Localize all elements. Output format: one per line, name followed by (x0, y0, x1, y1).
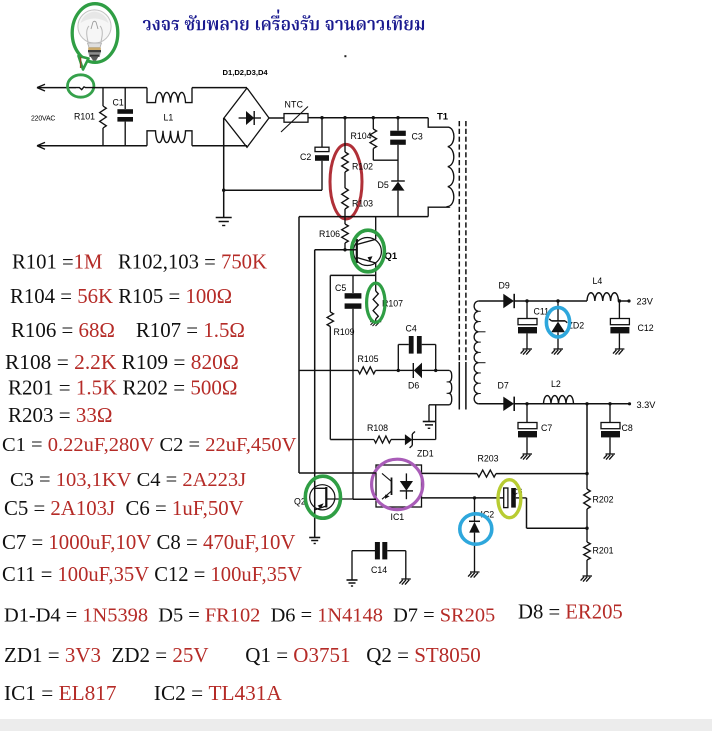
svg-text:R101: R101 (74, 112, 95, 122)
3.3V rectifier line (478, 403, 503, 405)
purple highlight circle around IC1 (372, 459, 423, 509)
base drive line (315, 249, 357, 251)
svg-text:C14: C14 (371, 565, 387, 575)
transistor Q2 (310, 485, 335, 510)
svg-text:C12: C12 (638, 323, 654, 333)
green highlight ellipse around Q2 (305, 476, 340, 518)
R201 ground symbol (583, 575, 593, 577)
3.3V rail wire (514, 403, 630, 405)
capacitor C4 (397, 345, 399, 371)
capacitor C7 electrolytic (526, 404, 528, 423)
junction dot base chain (343, 248, 346, 251)
svg-text:NTC: NTC (285, 100, 304, 110)
diode D7 (503, 397, 514, 411)
resistor R201 (584, 542, 591, 560)
sense line from 3.3V rail (586, 404, 588, 474)
svg-text:IC1 = EL817 IC2 = TL431A: IC1 = EL817 IC2 = TL431A (4, 681, 282, 705)
transformer T1 primary winding (428, 118, 454, 217)
junction dot D6-aux (434, 369, 437, 372)
red highlight ellipse around R102 R103 (330, 144, 362, 219)
C14 right ground symbol (401, 578, 411, 580)
C7 ground symbol (523, 453, 533, 455)
capacitor C12 electrolytic (618, 301, 620, 319)
svg-text:R201: R201 (593, 546, 614, 556)
aux winding of T1 (436, 369, 450, 371)
C8 ground symbol (606, 453, 616, 455)
svg-text:C2: C2 (300, 152, 311, 162)
optocoupler IC1 box (376, 465, 422, 507)
svg-text:L4: L4 (593, 276, 603, 286)
svg-text:R201 = 1.5K R202 = 500Ω: R201 = 1.5K R202 = 500Ω (8, 376, 238, 400)
AC input terminal arrows and 220VAC label (37, 84, 45, 87)
resistor R101 across AC line (102, 88, 104, 106)
capacitor C6 (504, 488, 508, 508)
common-mode choke L1 bottom winding (147, 131, 192, 146)
IC1 internal LED (405, 473, 407, 481)
wire L4 to 23V terminal (619, 300, 630, 302)
svg-text:L1: L1 (164, 113, 174, 123)
svg-text:220VAC: 220VAC (31, 116, 55, 123)
junction dot C7 (525, 402, 528, 405)
capacitor C5 (352, 275, 354, 293)
junction dot C11 (525, 299, 528, 302)
svg-text:C1 = 0.22uF,280V C2 = 22uF,450: C1 = 0.22uF,280V C2 = 22uF,450V (2, 434, 297, 456)
IC2 ground symbol (470, 571, 480, 573)
shunt regulator IC2 TL431 (473, 496, 476, 499)
wire NTC to rail junction (308, 117, 322, 119)
svg-text:D7: D7 (498, 381, 509, 391)
junction dot DC- rail (222, 189, 225, 192)
DC- rail wire (224, 189, 322, 191)
23V rectifier line (478, 300, 503, 302)
wire bridge left corner down to DC- rail (223, 118, 225, 190)
light bulb clipart in green speech bubble (72, 4, 118, 63)
svg-text:C7: C7 (541, 423, 552, 433)
R109-R108 link (330, 439, 353, 441)
resistor R104 (372, 118, 374, 129)
IC1 bottom-left pin wire (353, 498, 376, 500)
junction dot R203-R202 (585, 472, 588, 475)
left rail to IC1 (298, 217, 300, 473)
wire top AC from input to fuse (37, 87, 76, 89)
diode D5 (391, 180, 405, 182)
svg-text:ZD1: ZD1 (417, 449, 434, 459)
svg-text:R101 =1M R102,103 = 750K: R101 =1M R102,103 = 750K (12, 252, 267, 274)
stray ink dot (344, 55, 346, 57)
svg-text:R108 = 2.2K R109 = 820Ω: R108 = 2.2K R109 = 820Ω (5, 350, 239, 374)
wire R106 to base node (344, 243, 346, 250)
svg-text:R106 = 68Ω R107 = 1.5Ω: R106 = 68Ω R107 = 1.5Ω (11, 318, 245, 342)
svg-text:D5: D5 (378, 180, 389, 190)
svg-text:D6: D6 (408, 381, 419, 391)
svg-text:R104: R104 (351, 131, 372, 141)
C6 to divider wire (526, 498, 528, 528)
svg-text:C3: C3 (412, 132, 423, 142)
inductor L4 (587, 293, 619, 301)
NTC thermistor (284, 114, 308, 123)
svg-text:D1-D4 = 1N5398 D5 = FR102 D6: D1-D4 = 1N5398 D5 = FR102 D6 = 1N4148 D7… (4, 605, 495, 627)
wire R102 to R103 (344, 172, 346, 188)
svg-text:R103: R103 (352, 199, 373, 209)
IC1 top-right pin wire to R203 line (422, 472, 478, 474)
junction dot R105-C4 (397, 369, 400, 372)
inductor L2 (544, 396, 574, 404)
svg-text:R108: R108 (367, 423, 388, 433)
C11 ground symbol (523, 348, 533, 350)
svg-text:C5: C5 (335, 283, 346, 293)
fuse F1 on top AC wire (76, 87, 92, 90)
wire bottom AC from input to L1 (37, 145, 147, 147)
Q1 emitter line (330, 274, 375, 276)
IC1 internal phototransistor (391, 478, 393, 496)
resistor R202 (586, 474, 588, 489)
junction dot R102 chain (343, 116, 346, 119)
svg-text:C11 = 100uF,35V C12 = 100uF,35: C11 = 100uF,35V C12 = 100uF,35V (2, 564, 302, 586)
svg-text:D1,D2,D3,D4: D1,D2,D3,D4 (223, 68, 269, 77)
resistor R203 (477, 470, 496, 477)
svg-text:T1: T1 (437, 112, 449, 123)
bridge rectifier D1,D2,D3,D4 diamond (224, 88, 269, 147)
capacitor C14 (352, 550, 375, 552)
ZD2 ground symbol (554, 348, 564, 350)
svg-text:C5 = 2A103J C6 = 1uF,50V: C5 = 2A103J C6 = 1uF,50V (4, 497, 244, 520)
wire top AC from fuse to L1 (92, 87, 147, 89)
svg-text:R203: R203 (478, 454, 499, 464)
wire bottom AC from L1 to bridge (192, 145, 247, 147)
green highlight circle around fuse (68, 75, 94, 97)
wire top AC from L1 to bridge (192, 87, 247, 89)
junction dot C8 (608, 402, 611, 405)
junction dot sense line (585, 402, 588, 405)
svg-text:23V: 23V (637, 297, 654, 307)
capacitor C3 (397, 118, 399, 131)
bottom gray strip (0, 719, 712, 731)
svg-text:R202: R202 (593, 495, 614, 505)
svg-text:R106: R106 (319, 229, 340, 239)
svg-text:D8 = ER205: D8 = ER205 (518, 602, 623, 624)
capacitor C1 across AC line (124, 88, 126, 109)
svg-text:ZD1 = 3V3 ZD2 = 25V Q1: ZD1 = 3V3 ZD2 = 25V Q1 = O3751 Q2 = ST80… (4, 643, 481, 667)
svg-text:Q1: Q1 (385, 251, 398, 262)
svg-text:R102: R102 (352, 162, 373, 172)
svg-text:C3 = 103,1KV C4 = 2A223J: C3 = 103,1KV C4 = 2A223J (10, 469, 246, 491)
svg-text:3.3V: 3.3V (637, 400, 657, 410)
blue highlight circle around IC2 (460, 514, 492, 544)
Q2 ground symbol (309, 537, 320, 539)
green highlight ellipse around R107 (367, 283, 385, 322)
svg-text:D9: D9 (499, 281, 510, 291)
Thai title text (143, 9, 424, 30)
svg-text:C8: C8 (622, 423, 633, 433)
DC+ rail wire (322, 117, 428, 119)
capacitor C8 electrolytic (609, 404, 611, 423)
resistor R102 (342, 152, 349, 172)
yellow-green highlight ellipse around C6 (498, 480, 521, 518)
primary ground symbol (223, 190, 225, 217)
zener diode ZD2 (557, 301, 559, 321)
23V rail wire (514, 300, 588, 302)
svg-text:R104 = 56K R105 = 100Ω: R104 = 56K R105 = 100Ω (10, 285, 232, 308)
blue highlight circle around ZD2 (546, 307, 569, 337)
junction dot C12 (618, 299, 621, 302)
resistor R108 (353, 439, 374, 441)
resistor R109 branch (329, 275, 331, 312)
svg-text:R105: R105 (358, 354, 379, 364)
transformer core dashed lines (458, 121, 460, 362)
startup chain wire rail to R102 (344, 118, 346, 152)
svg-text:C7 = 1000uF,10V C8 = 470uF,10V: C7 = 1000uF,10V C8 = 470uF,10V (2, 531, 295, 554)
junction dot C3 (396, 116, 399, 119)
R107 ground symbol (370, 321, 381, 323)
junction dot C2 (320, 116, 323, 119)
resistor R105 (299, 369, 358, 371)
svg-text:R203 = 33Ω: R203 = 33Ω (8, 403, 112, 427)
C14 left ground symbol (347, 579, 358, 581)
junction dot R104 (372, 116, 375, 119)
junction dot ZD2 (556, 299, 559, 302)
common-mode choke L1 top winding (147, 88, 192, 103)
zener diode ZD1 (405, 434, 412, 445)
capacitor C11 electrolytic (526, 301, 528, 319)
svg-text:C1: C1 (113, 98, 124, 108)
svg-text:C4: C4 (406, 324, 417, 334)
resistor R107 (375, 275, 377, 291)
resistor R106 (342, 224, 349, 243)
svg-text:IC1: IC1 (391, 512, 405, 522)
transformer secondary winding (474, 301, 478, 404)
diode D9 (503, 294, 514, 308)
diode D6 (398, 369, 413, 371)
transistor Q1 (356, 239, 358, 263)
wire R103 to R106 (344, 209, 346, 224)
clamp line y216 (299, 216, 428, 218)
Q2 collector vertical line (314, 250, 316, 538)
junction dot divider (585, 527, 588, 530)
wire bridge right corner to NTC (269, 117, 284, 119)
aux ground symbol (428, 405, 430, 422)
IC1 bottom-right pin wire (422, 497, 504, 499)
green highlight ellipse around Q1 (352, 230, 385, 272)
IC1 top-left pin wire (299, 472, 376, 474)
resistor R103 (342, 188, 349, 209)
C12 ground symbol (615, 348, 625, 350)
svg-text:R109: R109 (334, 327, 355, 337)
capacitor C2 electrolytic (321, 118, 323, 147)
svg-text:L2: L2 (551, 379, 561, 389)
